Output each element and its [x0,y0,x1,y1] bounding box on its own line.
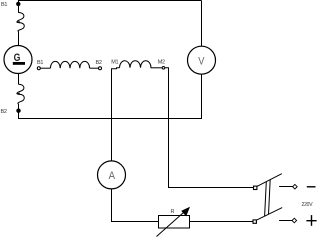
wire terminal to field coil [40,67,50,69]
wire M coil right to small terminal [151,67,163,69]
switch S hinge square top [254,186,257,189]
wire dot down to mid rail [18,111,20,119]
wire V bottom to mid rail [201,74,203,119]
rheostat R body [159,216,190,229]
switch S hinge square bottom [253,220,256,223]
contact diamond top [293,184,298,189]
inductor mutual coil M [120,61,152,68]
inductor armature bottom coil of G [17,84,24,110]
node B1 junction dot top-left [16,2,20,6]
svg-text:M1: M1 [111,60,118,66]
svg-text:V: V [198,55,205,67]
switch link bar line 2 [269,180,271,215]
switch blade top [257,174,282,187]
wire top horizontal from node B1 to V drop [18,0,202,2]
wire A bottom down and right to rheostat [112,189,159,222]
wire G bottom to armature coil bottom [18,74,20,85]
inductor field winding B1-B2 [50,61,89,68]
node B2 junction dot bottom-left [16,109,20,113]
wire dot to armature coil top [18,1,20,13]
terminal B2 open circle [99,67,102,70]
svg-text:B2: B2 [96,60,102,66]
wire coil to G top [18,31,20,45]
wire contact stub top [279,186,293,188]
svg-text:A: A [109,170,116,182]
svg-text:B2: B2 [1,109,7,115]
svg-text:R: R [171,209,175,215]
ammeter A circle [98,161,126,189]
rheostat arrow diagonal [157,209,188,236]
wire contact stub bottom [279,220,292,222]
svg-text:220V: 220V [302,202,314,208]
G underline bar [13,62,25,65]
svg-text:B1: B1 [1,2,7,8]
switch blade bottom [256,208,282,221]
svg-text:M2: M2 [158,60,165,66]
inductor armature top coil of G [17,13,24,32]
contact diamond bottom [292,218,297,223]
svg-text:B1: B1 [37,60,43,66]
wire terminal to right leg down to switch rail [165,68,254,188]
rheostat arrowhead [181,207,190,217]
wire mid horizontal rail [19,118,202,120]
switch link bar line 1 [265,182,267,217]
terminal small circle M2 [162,67,165,70]
wire rheostat right to switch bottom [190,221,254,223]
wire V drop vertical [201,1,203,47]
supply minus sign [307,186,316,188]
terminal B1 open circle [37,67,40,70]
wire field coil to terminal B2 [90,67,99,69]
wire M coil left leg corner [112,68,120,161]
supply plus sign [306,220,316,222]
voltmeter V circle [188,46,216,74]
generator G circle [4,46,32,74]
